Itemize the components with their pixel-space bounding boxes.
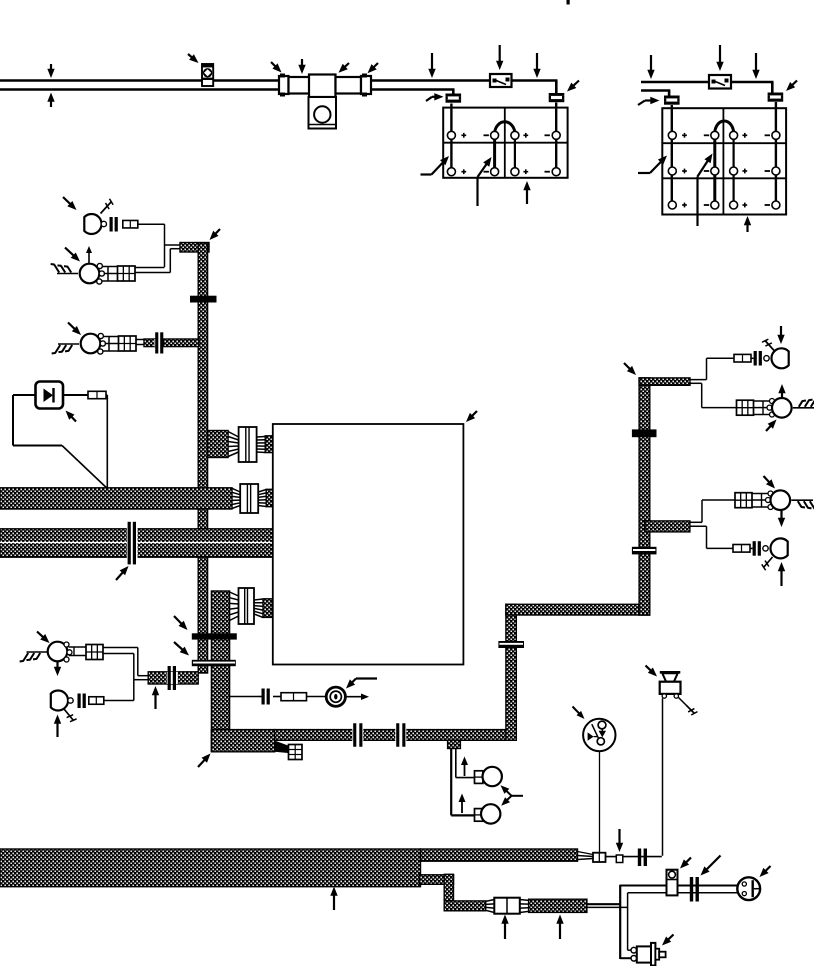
lamp B4 ground lead	[20, 652, 48, 661]
lamp B5 (blackout lamp)	[51, 691, 73, 711]
junction block T sleeve left ring	[279, 74, 289, 97]
harness: jog horizontal H3	[506, 604, 650, 615]
wires: cluster1 lower lamp	[690, 383, 737, 407]
callout arrow: fuel gauge	[573, 707, 585, 720]
junction block T right sleeve	[336, 77, 362, 94]
harness clamp band lower	[192, 660, 236, 666]
crop mark top	[567, 0, 570, 5]
junction block T right ring	[361, 74, 371, 97]
battery 2 case	[662, 108, 786, 214]
callout arrow: cable (up)	[47, 93, 54, 108]
switch/fuse F2 on feeder	[709, 75, 731, 89]
callout arrow: T left ring	[271, 62, 282, 73]
wire: lamp B1 to harness	[138, 224, 181, 267]
connector bars on bottom run A	[352, 723, 363, 747]
harness transition 1 right block	[265, 436, 274, 453]
callout arrow: cable right of F1 (down)	[533, 53, 540, 78]
callout arrow: trailer receptacle	[760, 866, 771, 877]
harness: lamp B3 stub left	[144, 339, 155, 347]
callout arrow: horn	[346, 679, 377, 689]
lamp B4 down arrow	[54, 661, 61, 677]
harness: drop stub below bottom run	[448, 740, 461, 748]
broken-lead mark at lamp R1a	[762, 339, 775, 351]
harness clamp on V2	[498, 641, 524, 648]
connector bars at lamp B5	[78, 694, 86, 709]
connector grid at lamp B3	[119, 336, 137, 351]
harness: trailer run right	[529, 899, 587, 912]
lamp R1a (blackout tail)	[764, 348, 789, 368]
connector grid at R1 lower	[737, 400, 754, 415]
battery 2 terminals	[668, 131, 780, 209]
callout arrow: trailer wire bars	[701, 856, 721, 876]
wire: horn lead with arrow	[345, 694, 369, 701]
wires: lamp B2 to harness	[135, 249, 181, 273]
fuel tank sender unit	[631, 943, 666, 966]
broken-lead mark at lamp R2b	[762, 557, 773, 570]
harness transition 2 connector	[240, 484, 258, 513]
callout arrow: diode assembly	[66, 411, 77, 422]
harness transition 1 connector	[239, 427, 257, 462]
connector at frame harness end	[593, 853, 606, 862]
callout arrow: control box	[466, 411, 477, 422]
wire: to horn junction	[606, 856, 662, 858]
junction block T left sleeve	[289, 77, 310, 94]
inline connector at R2 lower	[733, 545, 750, 553]
callout arrow: harness corner	[198, 754, 211, 768]
callout arrow: drop lamp upper (up)	[461, 757, 468, 777]
lamp B3 (service headlamp)	[81, 333, 106, 354]
callout arrow: battery1 right clamp	[567, 81, 579, 92]
junction block T lower housing with eyelet	[309, 97, 337, 129]
harness transition 2 right fan	[258, 490, 266, 507]
connector C1 on cable	[202, 64, 213, 86]
battery 1 jumper right leg	[514, 133, 516, 172]
callout arrow: drop lamp lower (up)	[459, 794, 466, 814]
callout arrow: trailer connector (up)	[501, 915, 508, 940]
battery 1 wire pos	[450, 104, 452, 172]
callout arrow: battery2 left clamp	[638, 97, 660, 105]
battery 2 jumper right leg	[732, 135, 734, 205]
connector at drop lamp upper	[475, 771, 483, 784]
callout arrow: battery1 jumper	[478, 157, 492, 206]
callout arrow: lamp R2a	[764, 476, 776, 489]
battery 2 negative terminal clamp	[768, 93, 784, 102]
wire: diode left loop	[13, 395, 107, 489]
lamp R1b (service tail)	[767, 398, 792, 418]
battery 2 jumper strap	[715, 121, 734, 133]
connector grid at R2 upper	[735, 493, 752, 508]
battery 1 positive terminal clamp	[446, 94, 462, 103]
callout arrow: lamp R1b	[766, 420, 777, 432]
harness: frame main run (thin tail)	[421, 849, 578, 861]
callout arrow: fuel sender	[662, 935, 674, 946]
callout arrow: lamp B4	[37, 632, 50, 644]
wire: trailer circuit 2	[587, 893, 739, 950]
junction block T center block	[309, 75, 336, 98]
wire: battery2 feeder lower	[641, 91, 670, 97]
harness: frame main run (thick)	[0, 849, 421, 887]
connector bars on horn junction wire	[638, 849, 647, 867]
harness: left lamp feeder stub	[148, 672, 198, 684]
harness clamp band upper	[192, 633, 237, 639]
lamp B1 (blackout marker)	[84, 214, 106, 234]
callout arrow: battery1 lower-left cell	[421, 156, 450, 175]
callout arrow: lamp B2	[65, 248, 80, 262]
callout arrow: cable to battery 1 (down)	[428, 53, 435, 78]
lamp B5 ground lead	[64, 709, 77, 722]
battery 1 terminals	[447, 131, 560, 175]
drop lamp lower	[481, 804, 500, 823]
harness: lower corner horizontal thick	[211, 730, 274, 752]
trailer receptacle	[737, 877, 760, 900]
callout arrow: harness top corner	[210, 229, 221, 240]
instrument/control box (blank)	[273, 424, 464, 665]
wire: battery2 feeder upper	[641, 82, 774, 93]
callout arrow: fuse F2 (down)	[716, 45, 723, 71]
trailer connector box	[494, 898, 520, 914]
harness: horizontal run 1 (to cab)	[0, 488, 232, 509]
wire: trailer circuit 1	[587, 885, 738, 959]
callout arrow: battery2 jumper	[698, 154, 713, 227]
wires: lamp B3 to stub	[136, 340, 145, 345]
connector bars on harness 2	[127, 522, 138, 565]
callout arrow: horn top right	[646, 666, 658, 677]
harness transition 1 right fan	[257, 437, 266, 453]
inline connector at diode	[88, 391, 106, 398]
lamp B2 (service headlamp)	[80, 263, 105, 284]
lamp B2 ground lead	[51, 264, 78, 273]
inline connector at R1 upper	[734, 354, 751, 362]
connector bars on trailer wire	[690, 877, 699, 902]
callout arrow: T center	[339, 63, 350, 73]
trailer connector left fan	[486, 900, 495, 913]
lamp R2b (blackout stop)	[763, 538, 788, 558]
battery 2 wire neg	[775, 102, 777, 205]
harness clamp on V3 lower	[632, 547, 657, 555]
harness transition 1 left fan	[228, 432, 239, 457]
inline connector small	[616, 855, 623, 863]
diode assembly box	[36, 382, 64, 409]
lamp R2a bottom arrow (down)	[778, 510, 785, 528]
callout arrow: battery2 mid-left cell	[638, 156, 667, 174]
inline connector at lamp B1	[123, 220, 138, 228]
wires: cluster1 upper lamp	[690, 358, 734, 379]
harness clamp (band)	[190, 296, 217, 303]
callout arrow: inline connector (down)	[616, 829, 623, 852]
lamp R2a pin bracket	[752, 494, 768, 508]
callout arrow: lamp B5 (up)	[54, 715, 61, 738]
switch/fuse F1 on cable	[490, 74, 512, 87]
harness transition 3 right fan	[254, 599, 263, 618]
harness: step vertical	[444, 874, 453, 903]
battery 2 jumper left leg	[713, 135, 716, 205]
callout arrow: clamp upper	[174, 616, 188, 630]
callout arrow: harness H4	[624, 363, 636, 375]
harness transition 2 right block	[266, 489, 274, 506]
callout arrow: lamp R2b (up)	[778, 562, 785, 586]
horn (concentric rings)	[326, 687, 345, 706]
callout arrow: frame harness (up)	[330, 887, 337, 911]
inline connector at lamp B5	[89, 697, 104, 705]
harness: lower wide vertical run	[211, 591, 229, 751]
battery 1 wire neg	[555, 103, 557, 172]
harness: step down piece	[420, 875, 454, 885]
callout arrow: lamp B1	[63, 197, 77, 210]
wire: lamp B5 to feeder	[104, 680, 134, 701]
callout arrow: battery2 right clamp	[786, 81, 797, 92]
harness clamp on V3 upper	[632, 429, 657, 437]
frame harness end fan	[578, 852, 594, 860]
connector bars on left lamp feeder	[167, 666, 178, 690]
harness transition 3 right block	[263, 599, 272, 618]
harness: lamp B3 stub right	[164, 339, 200, 347]
connector at drop lamp lower	[475, 809, 483, 822]
battery 1 negative terminal clamp	[549, 93, 565, 102]
callout arrow: clamp lower	[174, 642, 189, 656]
callout arrow: cable (down)	[47, 64, 54, 78]
harness: horizontal run 2 (to cab)	[0, 529, 275, 557]
harness: headlamp branch stub	[180, 243, 209, 253]
lamp R1b top arrow (up)	[778, 384, 785, 399]
harness transition 1 left block	[208, 431, 229, 458]
drop lamp upper	[483, 767, 502, 786]
connector grid at lamp B2	[118, 266, 136, 281]
callout arrow: battery2 bottom (up)	[744, 216, 751, 232]
connector bars at lamp B1	[110, 217, 118, 232]
lamp B4 (service lamp)	[48, 642, 72, 662]
harness: bottom horizontal run	[275, 730, 517, 741]
wire: top chassis cable lower conductor	[0, 90, 455, 95]
wire: diode right to harness	[63, 395, 107, 489]
callout arrow: harness2 connector	[116, 566, 129, 580]
callout arrow: circuit breaker	[680, 858, 691, 869]
circuit breaker on trailer wire	[667, 870, 678, 896]
harness: right vertical run V3	[639, 378, 650, 615]
callout arrow: T right ring	[368, 63, 379, 73]
wires: cluster2 upper lamp	[690, 500, 735, 522]
callout arrow: battery2 feeder left (down)	[647, 55, 654, 79]
connector bars on B3 stub	[154, 332, 164, 353]
connector bars at R1 upper	[751, 351, 762, 366]
broken-lead mark at lamp B1	[101, 199, 114, 214]
callout arrow: left lamp feeder (up)	[152, 686, 159, 709]
lamp R1b pin bracket	[754, 401, 770, 415]
horn projector (trapezoid)	[660, 672, 681, 681]
harness: mid right branch H5	[645, 521, 690, 532]
harness transition 3 connector	[239, 588, 255, 624]
double callout arrow: drop lamps	[501, 785, 524, 806]
harness: left vertical run	[198, 243, 207, 673]
battery 1 jumper left leg	[493, 133, 496, 172]
wire: drop lamp upper	[456, 749, 475, 778]
lamp B2 pin bracket	[102, 267, 118, 282]
lamp B3 pin bracket	[103, 337, 119, 352]
lamp R2a (service tail)	[766, 490, 791, 510]
fuel gauge sender symbol	[583, 719, 615, 751]
battery 2 positive terminal clamp	[664, 96, 680, 105]
connector bars on bottom run B	[395, 723, 406, 747]
callout arrow: battery2 feeder right (down)	[752, 53, 759, 79]
harness: mid vertical run V2	[506, 604, 516, 740]
callout arrow: lamp R1a (down)	[777, 326, 784, 344]
harness transition 2 left fan	[232, 488, 240, 508]
battery 1 jumper strap	[495, 122, 515, 133]
callout arrow: T block (down)	[298, 59, 305, 74]
callout arrow: lamp B3	[68, 323, 81, 336]
battery 1 case	[443, 108, 567, 178]
lamp B3 ground lead	[52, 344, 79, 353]
harness transition 3 left fan	[230, 592, 239, 621]
lamp B2 top lead	[86, 246, 92, 263]
callout arrow: fuse F1 (down)	[496, 45, 503, 70]
callout arrow: connector C1	[188, 54, 199, 63]
lamp R2a ground lead	[791, 500, 814, 509]
horn ground lead	[679, 698, 698, 716]
lamp R1b ground lead	[793, 398, 814, 407]
connector grid below corner	[289, 745, 303, 760]
lamp B4 pin bracket	[69, 647, 87, 656]
callout arrow: trailer harness (up)	[556, 915, 563, 940]
wires: cluster2 lower lamp	[690, 526, 733, 548]
callout arrow: battery1 bottom (up)	[523, 181, 530, 204]
wire: top chassis cable upper conductor	[0, 81, 558, 94]
wire: drop lamp lower	[451, 749, 474, 816]
connector grid at lamp B4	[86, 645, 103, 660]
connector bars at R2 lower	[750, 541, 761, 556]
horn body	[660, 682, 681, 699]
wires: lamp B4 to feeder	[103, 648, 149, 680]
harness: top right horizontal H4	[639, 378, 690, 385]
connector fan below corner	[275, 741, 289, 754]
callout arrow: battery1 left clamp	[426, 93, 444, 101]
wire: horn to junction	[662, 698, 664, 856]
connector bars on horn feed	[258, 689, 270, 705]
harness: trailer run left	[444, 901, 486, 911]
trailer connector right fan	[520, 900, 529, 913]
battery 2 wire pos	[671, 105, 673, 205]
wire: gauge to harness	[599, 751, 601, 853]
wire: horn feed	[230, 696, 327, 698]
inline connector on horn feed	[281, 693, 307, 701]
